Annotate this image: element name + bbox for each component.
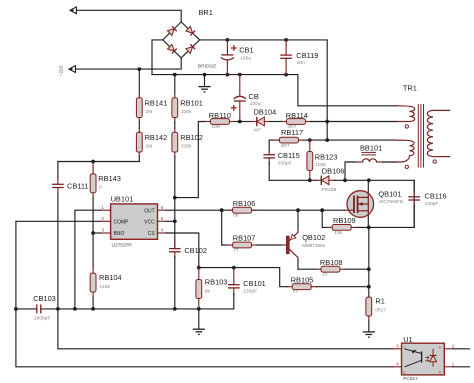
svg-text:130pF: 130pF [243,289,257,295]
svg-text:DB104: DB104 [254,108,277,117]
wire pin1 to bottom row [75,210,101,309]
core lines [417,104,419,168]
resistor RB141 [136,69,142,128]
capacitor CB (aux supply) [231,75,246,122]
wire row RB103-CB101-RB105 [199,268,287,287]
svg-text:BR1: BR1 [199,8,213,17]
resistor RB114 [282,119,328,125]
svg-text:CB101: CB101 [243,279,266,288]
capacitor CB115 [263,150,275,180]
svg-text:RB141: RB141 [145,98,168,107]
node CB119 top [284,38,288,42]
wire bottom common row [16,308,37,310]
node RB103 bottom / ground [197,307,201,311]
node DC+ / winding2 top junction [325,138,329,142]
svg-text:10n: 10n [297,60,305,66]
diode DB104 [240,117,282,126]
svg-text:CB102: CB102 [184,246,207,255]
svg-text:100u: 100u [240,55,251,61]
capacitor CB111 [52,162,64,309]
svg-text:2M: 2M [146,144,153,150]
svg-text:CB116: CB116 [425,191,447,200]
svg-text:RB101: RB101 [180,98,203,107]
IC UB101 [100,204,166,239]
node RB108 right [367,267,371,271]
node bottom row left [14,307,18,311]
resistor RB123 [307,140,313,180]
wire long feedback B (COMP line to U1 pin4) [16,309,393,367]
svg-text:CB119: CB119 [296,51,318,60]
wire gate drive row [166,209,344,211]
svg-text:100pF: 100pF [425,201,439,207]
ground primary [198,75,210,92]
wire snubber row to winding2 top [310,139,397,141]
node CB101 top junction [232,266,236,270]
node RB103 top junction [197,266,201,270]
svg-text:RB109: RB109 [333,216,356,225]
svg-text:2M: 2M [146,109,153,115]
svg-text:1000pF: 1000pF [34,316,51,322]
svg-text:VCC: VCC [144,219,155,225]
resistor RB105 [287,284,369,290]
wire CS to RB103 node [166,233,199,268]
wire DC+ rail [200,40,328,140]
svg-text:330k: 330k [181,144,192,150]
node CB102 bottom [173,307,177,311]
svg-text:COMP: COMP [114,219,130,225]
node CB bottom / RB110 / DB104 [238,120,242,124]
svg-text:DB106: DB106 [322,167,345,176]
phototransistor [421,352,423,363]
node CB119 bottom [284,73,288,77]
svg-text:CB1: CB1 [239,46,253,55]
node RB117-RB123 top [308,138,312,142]
node QB101 source junction [367,226,371,230]
svg-text:QB102: QB102 [302,233,325,242]
input terminal arrow 1 [70,7,76,14]
svg-text:RB110: RB110 [209,111,231,120]
svg-text:BB101: BB101 [360,144,382,153]
resistor RB101 [172,75,178,129]
node RB109 branch [320,208,324,212]
ground below RB103 [193,309,205,335]
svg-text:8k: 8k [205,289,211,295]
node BB101 bottom junction [343,178,347,182]
resistor RB108 [298,266,369,272]
svg-text:UB101: UB101 [111,195,134,204]
svg-text:RB123: RB123 [315,153,338,162]
wire snubber bottom row [269,179,316,181]
input terminal arrow 2 [69,66,75,73]
svg-text:CB115: CB115 [278,151,300,160]
svg-text:RB114: RB114 [286,111,308,120]
resistor RB107 [222,210,282,248]
svg-text:C: C [403,345,406,349]
svg-text:U1: U1 [403,335,412,344]
secondary winding [427,110,450,156]
winding2 (primary) [396,140,414,162]
wire bridge left to DC- rail [152,40,163,75]
node QB101 drain junction [367,178,371,182]
svg-text:BNO: BNO [114,231,125,237]
resistor RB102 [172,129,178,198]
svg-text:LD7537R: LD7537R [112,242,133,248]
capacitor CB119 [280,40,292,75]
diode DB106 [316,176,414,185]
svg-text:RB107: RB107 [233,234,256,243]
node RB105 right [367,285,371,289]
node RB123 bottom [308,178,312,182]
svg-text:QB101: QB101 [378,189,401,198]
MOSFET QB101 [344,180,374,227]
capacitor CB1 [221,40,237,75]
svg-text:330k: 330k [181,109,192,115]
svg-text:FR208: FR208 [322,187,337,193]
transformer TR1 [396,104,450,169]
svg-text:M7: M7 [254,128,261,134]
wire BNO stub [93,232,100,234]
svg-text:RB104: RB104 [99,273,122,282]
photodiode [432,349,434,356]
svg-text:PC817: PC817 [403,376,418,382]
wire VCC vertical [166,220,175,222]
wire RB114 row to winding1 bottom [327,121,397,123]
winding1 (aux) [396,106,415,122]
resistor RB103 [196,268,202,309]
wire input2 to bridge bottom [75,58,181,69]
svg-text:4R7: 4R7 [281,143,290,149]
svg-text:RB103: RB103 [205,277,228,286]
svg-text:100u: 100u [250,101,261,107]
node input2/RB141 junction [137,67,141,71]
svg-text:RB106: RB106 [233,199,256,208]
node RB104 bottom [91,307,95,311]
ground below R1 [363,332,375,337]
bridge rectifier BR1 [163,22,200,58]
svg-text:RB105: RB105 [291,276,314,285]
node RB143 top [91,160,95,164]
diode BR1 bottom-right [186,47,193,54]
resistor RB110 [175,119,240,198]
node VCC junction [173,196,177,200]
resistor R1 [366,297,372,332]
svg-text:0R27: 0R27 [375,308,386,313]
node RB106/RB107 branch [220,208,224,212]
svg-text:RB142: RB142 [145,133,168,142]
svg-text:0: 0 [99,185,102,191]
node CB1 top [226,38,230,42]
resistor RB104 [90,233,96,309]
svg-text:R1: R1 [375,297,384,306]
diode BR1 bottom-left [168,44,175,51]
optocoupler U1 [393,343,470,375]
wire drain loop to CB116 [369,180,414,227]
svg-text:20: 20 [322,272,328,278]
svg-text:RB117: RB117 [281,128,303,137]
svg-text:RB108: RB108 [320,258,343,267]
resistor RB117 [269,137,310,150]
wire DC- rail [152,75,397,106]
node QB102 emitter branch [296,208,300,212]
node CB1 bottom [226,73,230,77]
svg-text:BRIDGE: BRIDGE [198,64,217,70]
svg-text:CS: CS [148,231,156,237]
svg-text:145k: 145k [99,284,110,290]
svg-text:CB: CB [249,92,259,101]
node BNO junction [91,231,95,235]
capacitor CB102 [169,243,181,309]
svg-text:~220: ~220 [59,65,65,76]
svg-text:RB102: RB102 [180,133,203,142]
svg-text:68: 68 [233,213,239,219]
phase dot winding2 [405,165,408,168]
node ground stem [203,73,207,77]
svg-text:CB103: CB103 [33,294,56,303]
resistor RB106 [228,207,257,213]
phase dot secondary [433,160,436,163]
svg-text:TR1: TR1 [403,84,417,93]
resistor RB109 [322,210,369,230]
inductor BB101 [345,152,397,180]
node RB101 top [173,73,177,77]
node pin1 bottom [73,307,77,311]
node DC+ / RB114 junction [325,120,329,124]
svg-text:77: 77 [292,289,298,295]
wire source line down [368,227,370,297]
node CB111 bottom [56,307,60,311]
resistor RB143 [90,162,96,234]
svg-text:MMBT3906: MMBT3906 [302,243,325,248]
svg-text:77: 77 [233,247,239,253]
svg-text:OUT: OUT [144,208,155,214]
svg-text:10R: 10R [211,124,220,130]
svg-text:10k: 10k [334,230,342,236]
wire long feedback A (CB111 line to U1 pin3) [58,309,393,349]
diode BR1 top-left [168,29,175,36]
wire COMP to left rail [16,221,101,309]
svg-text:330pF: 330pF [278,161,292,167]
diode BR1 top-right [186,26,193,33]
svg-text:CB111: CB111 [67,182,89,191]
svg-text:RB143: RB143 [98,174,121,183]
node CB top [238,73,242,77]
capacitor CB103 [37,304,41,313]
svg-text:JSC7N65FB: JSC7N65FB [378,199,402,204]
wire row CB111-RB143-RB142 [58,161,139,163]
capacitor CB101 [228,268,240,309]
phase dot winding1 [405,125,408,128]
capacitor CB116 [408,180,420,227]
resistor RB142 [136,129,142,162]
transistor QB102 [281,210,298,269]
wire input1 to bridge top [76,10,181,22]
